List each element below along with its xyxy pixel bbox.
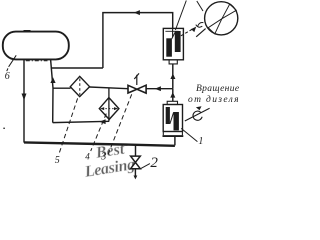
svg-text:3: 3 — [100, 152, 106, 163]
svg-text:6: 6 — [5, 71, 10, 82]
svg-text:4: 4 — [85, 151, 90, 161]
svg-text:от дизеля: от дизеля — [188, 94, 240, 105]
svg-text:Вращение: Вращение — [196, 84, 239, 94]
svg-text:2: 2 — [150, 155, 158, 171]
svg-text:5: 5 — [55, 155, 60, 166]
svg-text:1: 1 — [198, 136, 203, 147]
